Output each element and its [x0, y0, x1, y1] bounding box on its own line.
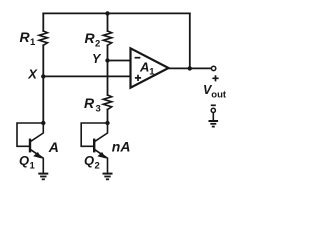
wire R1 bottom lead to node X	[42, 45, 44, 76]
wire Q1 collector-base tie loop	[17, 123, 43, 146]
resistor R1	[39, 31, 47, 45]
resistor R2	[103, 31, 111, 45]
minus sign at lower terminal	[211, 104, 216, 106]
resistor R3	[103, 95, 111, 110]
wire top rail	[43, 12, 190, 14]
wire node Y down to R3 (crosses X row, no junction)	[107, 61, 109, 96]
svg-text:R: R	[84, 95, 95, 111]
Q2 emitter lead	[95, 150, 108, 173]
svg-text:A: A	[139, 60, 149, 75]
svg-text:1: 1	[30, 37, 36, 48]
wire node X down to Q1 collector	[42, 76, 44, 123]
transistor Q2	[81, 123, 107, 173]
ground (Q1 emitter)	[38, 174, 48, 180]
node Y junction	[105, 58, 109, 62]
svg-text:2: 2	[95, 161, 100, 172]
svg-text:A: A	[48, 139, 59, 155]
ground (output reference)	[209, 121, 219, 127]
wire right vertical (feedback from output to rail)	[189, 13, 191, 68]
wire node Y row to op-amp - input	[108, 60, 131, 62]
node: Q1 collector-base junction	[41, 121, 45, 125]
op-amp plus sign	[135, 75, 141, 81]
Q2 emitter arrow	[97, 152, 106, 159]
svg-text:Q: Q	[19, 153, 29, 168]
wire R2 bottom lead to node Y	[107, 45, 109, 60]
Q1 emitter lead	[31, 150, 44, 173]
wire R3 bottom lead to Q2 collector	[107, 110, 109, 124]
svg-text:nA: nA	[112, 139, 131, 155]
svg-text:R: R	[85, 30, 96, 46]
svg-text:Q: Q	[84, 153, 94, 168]
ground (Q2 emitter)	[103, 174, 113, 180]
transistor Q1	[17, 123, 43, 173]
wire node X row to op-amp + input	[43, 75, 130, 77]
node: Q2 collector-base junction	[105, 121, 109, 125]
lower terminal (open circle)	[211, 108, 215, 112]
op-amp U A1 triangle	[131, 48, 169, 87]
wire lower terminal to ground	[212, 113, 214, 121]
Q2 base bar	[93, 140, 95, 151]
wire op-amp output	[169, 67, 211, 69]
node: output/feedback junction	[188, 66, 192, 70]
svg-text:2: 2	[95, 38, 100, 49]
node: rail/R2 junction	[105, 11, 109, 15]
wire R1 top lead	[42, 13, 44, 31]
svg-text:1: 1	[149, 67, 155, 78]
svg-text:out: out	[211, 90, 227, 101]
wire Q2 collector-base tie loop	[81, 123, 107, 146]
Q2 collector lead	[95, 123, 108, 142]
node X junction	[41, 74, 45, 78]
wire R2 top lead	[107, 13, 109, 31]
plus sign at output terminal	[212, 75, 218, 81]
Q1 emitter arrow	[33, 152, 42, 159]
svg-text:R: R	[20, 29, 31, 45]
op-amp minus sign	[135, 57, 141, 59]
Q1 collector lead	[31, 123, 44, 142]
svg-text:1: 1	[30, 161, 36, 172]
Q1 base bar	[29, 140, 31, 151]
svg-text:3: 3	[96, 103, 101, 114]
output terminal (open circle, +)	[211, 66, 215, 70]
svg-text:X: X	[27, 66, 38, 81]
